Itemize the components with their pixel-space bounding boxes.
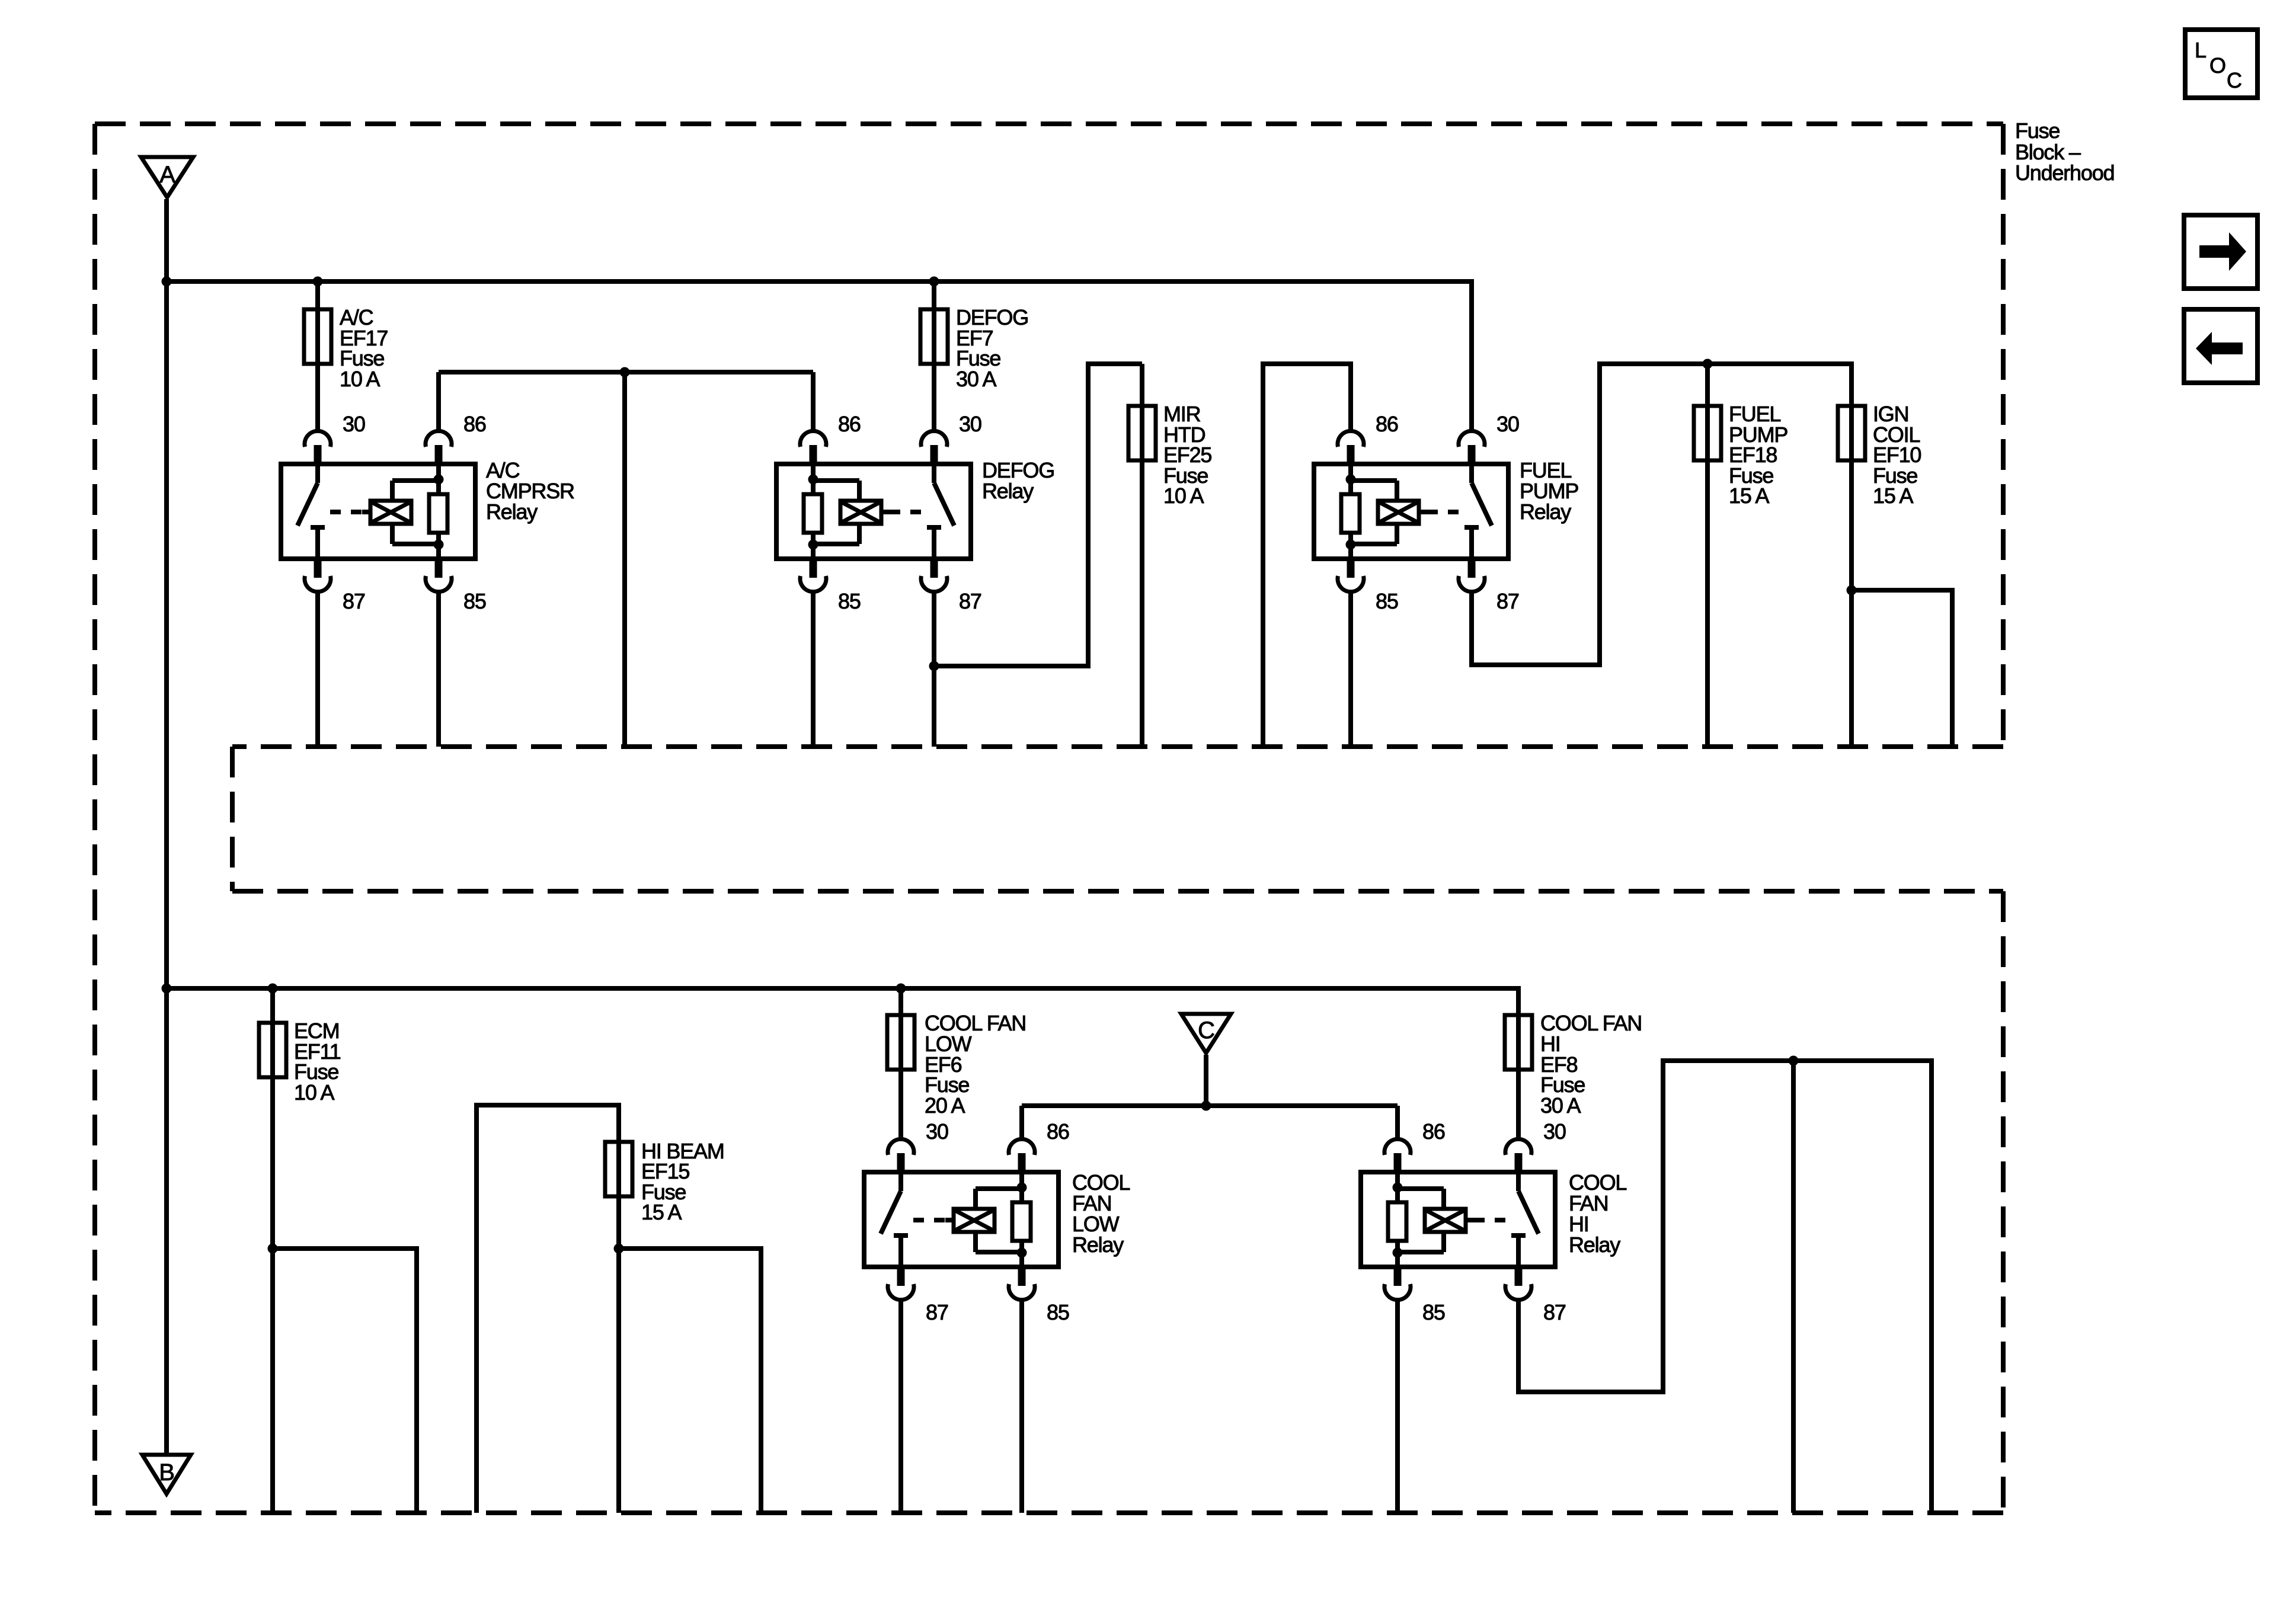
svg-text:87: 87 <box>1496 589 1519 613</box>
svg-text:30: 30 <box>343 412 365 436</box>
label: COOL FAN LOW Relay name <box>1072 1170 1130 1257</box>
svg-text:86: 86 <box>463 412 486 436</box>
junction: node A at upper bus <box>162 277 172 287</box>
wire: branch drop at x=3026 <box>1791 1061 1796 1513</box>
svg-text:85: 85 <box>463 589 486 613</box>
svg-text:L: L <box>2195 38 2206 62</box>
wire: IGN COIL fuse output branch <box>1851 590 1952 747</box>
label: fuse EF11 value <box>294 1019 341 1105</box>
label: fuse EF7 value <box>956 305 1028 391</box>
svg-text:30 A: 30 A <box>1540 1093 1581 1118</box>
fuse EF17 (A/C 10 A) <box>304 309 331 364</box>
junction: ECM branch <box>268 1244 278 1254</box>
fuse block boundary: top dashed edge <box>95 121 2003 126</box>
relay K3 FUEL PUMP Relay <box>1314 431 1508 591</box>
svg-text:86: 86 <box>838 412 861 436</box>
wire: upper supply bus to FUEL PUMP relay pin 30 <box>167 281 1472 431</box>
node B triangle connector <box>142 1455 191 1494</box>
wire: DEFOG relay pin 86 drop <box>811 372 816 431</box>
svg-text:B: B <box>159 1459 174 1486</box>
wire: lower supply bus to COOL FAN HI EF8 fuse and relay pin 30 <box>167 988 1518 1139</box>
junction: EF18 tap <box>1703 359 1713 369</box>
junction: EF17 tap on upper bus <box>313 277 323 287</box>
svg-text:30: 30 <box>926 1119 948 1144</box>
relay K5 COOL FAN HI Relay <box>1361 1139 1555 1299</box>
wire: DEFOG EF7 fuse branch to DEFOG relay pin 30 <box>932 281 936 431</box>
wire: FUEL PUMP EF18 fuse drop <box>1705 364 1710 747</box>
junction: IGN COIL fuse output <box>1847 585 1857 596</box>
wire: FUEL PUMP relay pin 85 drop <box>1348 592 1353 747</box>
wire: COOL FAN LOW pin 86 drop <box>1019 1106 1024 1139</box>
svg-text:15 A: 15 A <box>1873 484 1913 508</box>
label: A/C CMPRSR Relay name <box>486 458 574 524</box>
wire: A/C relay pin 86 riser <box>436 372 441 431</box>
svg-text:20 A: 20 A <box>925 1093 965 1118</box>
wire: DEFOG 87 branch to MIR HTD fuse <box>934 364 1142 666</box>
wire: HI BEAM fuse output drop <box>616 1249 621 1513</box>
svg-text:Relay: Relay <box>486 500 538 524</box>
wire: DEFOG relay pin 87 drop to edge <box>932 592 936 747</box>
svg-text:10 A: 10 A <box>340 367 380 391</box>
svg-text:Relay: Relay <box>982 479 1034 503</box>
label: COOL FAN HI Relay name <box>1569 1170 1626 1257</box>
svg-text:C: C <box>2227 68 2241 92</box>
wire: A/C relay pin 87 output drop <box>315 592 320 747</box>
label: fuse EF10 value <box>1873 402 1921 508</box>
svg-text:Relay: Relay <box>1072 1233 1124 1257</box>
junction: COOL FAN HI output branch <box>1789 1056 1799 1066</box>
junction: EF11 tap on lower bus <box>268 984 278 994</box>
svg-text:Relay: Relay <box>1569 1233 1620 1257</box>
LOC legend box <box>2185 30 2257 98</box>
wire: FUEL PUMP relay pin 86 feed line <box>1263 364 1351 747</box>
wire: COOL FAN LOW pin 85 drop <box>1019 1300 1024 1513</box>
wire: COOL FAN HI pin 87 output loop <box>1518 1061 1932 1513</box>
fuse EF7 (DEFOG 30 A) <box>920 309 948 364</box>
junction: 86 link branch <box>620 367 630 377</box>
svg-text:85: 85 <box>1376 589 1398 613</box>
node C triangle connector <box>1181 1014 1231 1053</box>
svg-text:10 A: 10 A <box>1163 484 1204 508</box>
wire: A/C relay pin 85 drop <box>436 592 441 747</box>
svg-text:85: 85 <box>1422 1300 1445 1324</box>
fuse block boundary: left dashed edge <box>92 124 97 1513</box>
wire: DEFOG relay pin 85 drop <box>811 592 816 747</box>
fuse EF6 (COOL FAN LOW 20 A) <box>887 1015 914 1070</box>
label: fuse EF15 value <box>641 1139 724 1224</box>
fuse block boundary: notch left dashed edge <box>230 747 235 891</box>
wire: FUEL PUMP 87 output to EF18/EF10 fuses <box>1472 364 1851 747</box>
wire: link between A/C 86 and DEFOG 86 <box>439 370 813 375</box>
label: FUEL PUMP Relay name <box>1520 458 1578 524</box>
svg-text:A: A <box>159 162 175 188</box>
relay K1 A/C CMPRSR Relay <box>281 431 475 591</box>
junction: EF6 tap on lower bus <box>896 984 906 994</box>
svg-text:O: O <box>2209 53 2225 78</box>
label: fuse EF8 value <box>1540 1011 1642 1118</box>
fuse EF10 (IGN COIL 15 A) <box>1838 406 1865 460</box>
fuse block boundary: bottom dashed edge <box>95 1510 2003 1515</box>
junction: EF7 tap on upper bus <box>929 277 939 287</box>
fuse EF8 (COOL FAN HI 30 A) <box>1505 1015 1532 1070</box>
svg-text:86: 86 <box>1047 1119 1069 1144</box>
svg-text:15 A: 15 A <box>641 1200 682 1224</box>
wire: COOL FAN LOW pin 87 drop <box>898 1300 903 1513</box>
label: Fuse Block - Underhood <box>2015 119 2114 185</box>
svg-text:87: 87 <box>926 1300 948 1324</box>
fuse EF15 (HI BEAM 15 A) <box>605 1142 632 1196</box>
fuse EF25 (MIR HTD 10 A) <box>1128 406 1156 460</box>
svg-text:85: 85 <box>838 589 861 613</box>
fuse block boundary: upper section bottom dashed edge <box>232 744 2003 749</box>
svg-text:86: 86 <box>1422 1119 1445 1144</box>
svg-text:15 A: 15 A <box>1729 484 1769 508</box>
fuse EF18 (FUEL PUMP 15 A) <box>1694 406 1721 460</box>
svg-text:C: C <box>1198 1017 1214 1044</box>
wire: ECM branch right <box>273 1249 417 1513</box>
wire: MIR HTD EF25 fuse line to edge <box>1140 364 1144 747</box>
relay K2 DEFOG Relay <box>776 431 971 591</box>
svg-text:86: 86 <box>1376 412 1398 436</box>
legend: left arrow box <box>2184 309 2257 383</box>
wire: COOL FAN HI pin 85 drop <box>1395 1300 1400 1513</box>
label: DEFOG Relay name <box>982 458 1054 503</box>
wire: ECM EF11 fuse drop <box>270 988 275 1513</box>
label: fuse EF18 value <box>1729 402 1787 508</box>
wire: HI BEAM feed loop to EF15 fuse <box>477 1105 619 1513</box>
wire: power feed A stem <box>164 199 169 281</box>
wire: COOL FAN LOW EF6 fuse branch to relay pin 30 <box>898 988 903 1139</box>
fuse block boundary: right dashed edge lower <box>2001 891 2006 1513</box>
wire: A/C EF17 fuse branch to A/C relay pin 30 <box>315 281 320 431</box>
label: fuse EF25 value <box>1163 402 1211 508</box>
svg-text:Relay: Relay <box>1520 500 1571 524</box>
fuse block boundary: right dashed edge upper <box>2001 124 2006 747</box>
wire: COOL FAN HI pin 86 drop <box>1395 1106 1400 1139</box>
wire: left trunk from node A bus down to node B <box>164 281 169 1454</box>
svg-text:30: 30 <box>1496 412 1519 436</box>
junction: node C link <box>1201 1101 1211 1111</box>
svg-text:87: 87 <box>1543 1300 1566 1324</box>
wire: branch from 86 link down to fuse block edge <box>622 372 627 747</box>
wire: HI BEAM branch right <box>619 1249 761 1513</box>
svg-text:Underhood: Underhood <box>2015 161 2114 185</box>
svg-text:85: 85 <box>1047 1300 1069 1324</box>
fuse EF11 (ECM 10 A) <box>259 1023 286 1077</box>
relay K4 COOL FAN LOW Relay <box>864 1139 1059 1299</box>
wire: node C stem <box>1204 1055 1208 1106</box>
svg-text:87: 87 <box>959 589 981 613</box>
svg-text:87: 87 <box>343 589 365 613</box>
svg-text:30: 30 <box>959 412 981 436</box>
junction: trunk at lower bus <box>162 984 172 994</box>
node A triangle connector <box>141 157 193 197</box>
label: fuse EF6 value <box>925 1011 1026 1118</box>
svg-text:10 A: 10 A <box>294 1080 334 1105</box>
svg-text:30: 30 <box>1543 1119 1566 1144</box>
wire: link between COOL FAN relay 86 pins <box>1022 1103 1398 1108</box>
junction: HI BEAM branch <box>614 1244 624 1254</box>
svg-text:30 A: 30 A <box>956 367 996 391</box>
fuse block boundary: lower section top dashed edge <box>232 889 2003 894</box>
junction: DEFOG 87 branch <box>929 661 939 671</box>
legend: right arrow box <box>2184 215 2257 289</box>
svg-text:Fuse: Fuse <box>2015 119 2060 143</box>
label: fuse EF17 value <box>340 305 388 391</box>
